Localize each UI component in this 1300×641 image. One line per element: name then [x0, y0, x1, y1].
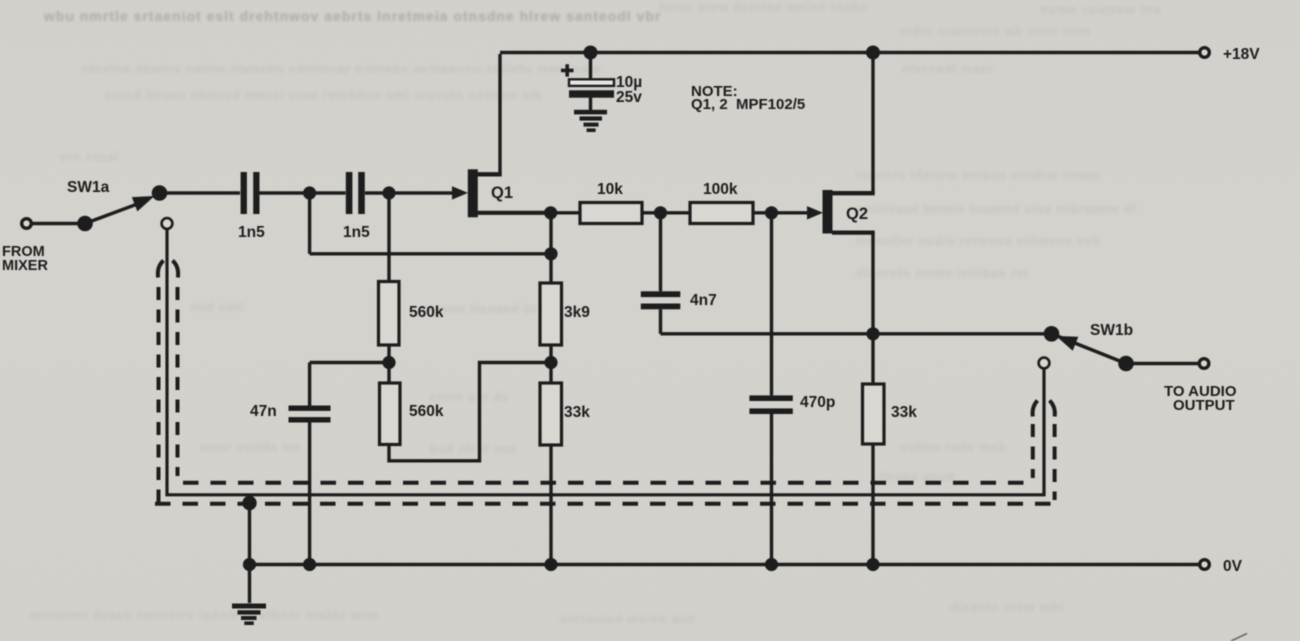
- wire SW1a lever: [85, 200, 148, 224]
- wire Q2 source to 33k: [871, 334, 874, 384]
- svg-text:470p: 470p: [800, 394, 835, 411]
- capacitor C1 1n5 plate right: [253, 172, 259, 214]
- junction dot Q1 source: [544, 206, 557, 219]
- wire SW1b lever: [1056, 336, 1126, 364]
- 10u plus sign: [561, 64, 574, 76]
- capacitor 47n plate top: [289, 406, 331, 411]
- junction dot Q2 source/output: [866, 327, 879, 340]
- terminal FROM MIXER: [22, 219, 32, 229]
- svg-text:47n: 47n: [250, 403, 277, 420]
- resistor 100k: [690, 203, 753, 224]
- arrowhead Q2 gate: [807, 206, 823, 219]
- junction dot 470p on rail: [765, 558, 778, 571]
- screen dashed shield left outer: [155, 261, 1058, 504]
- screen pickup circle right: [1039, 358, 1050, 369]
- wire right 33k to 0V rail: [871, 444, 874, 565]
- wire source node vertical: [549, 213, 552, 283]
- wire input terminal to switch pole: [31, 222, 85, 225]
- wire ground stub below screen: [248, 501, 251, 604]
- svg-text:10k: 10k: [597, 181, 623, 198]
- junction dot SW1a pole: [77, 216, 93, 232]
- arrowhead SW1a: [132, 196, 155, 211]
- junction dot 47n on rail: [303, 558, 316, 571]
- svg-text:33k: 33k: [564, 404, 590, 421]
- capacitor 4n7 plate bottom: [641, 304, 681, 310]
- capacitor 4n7 plate top: [641, 291, 681, 297]
- wire 470p upper lead: [770, 213, 773, 396]
- svg-text:Q2: Q2: [846, 205, 868, 223]
- svg-text:SW1a: SW1a: [67, 179, 110, 196]
- wire 47n lower lead to 0V: [308, 423, 311, 565]
- ground bars below 10u: [574, 110, 607, 115]
- capacitor 10u negative plate: [569, 90, 614, 97]
- arrowhead SW1b: [1056, 336, 1078, 351]
- wire between 1n5 caps: [260, 191, 346, 194]
- wire Q2 drain to rail: [871, 54, 874, 193]
- junction dot ground on rail: [243, 558, 256, 571]
- svg-text:3k9: 3k9: [564, 304, 590, 321]
- wire bootstrap horizontal to source node: [310, 252, 551, 255]
- screen solid earth line: [167, 229, 1044, 495]
- junction dot rail/Q2 drain: [866, 46, 880, 60]
- svg-text:SW1b: SW1b: [1090, 322, 1133, 339]
- junction dot 560k chain mid: [382, 356, 395, 369]
- wire +18V top rail: [500, 51, 1199, 54]
- capacitor 470p plate top: [749, 395, 792, 401]
- resistor 33k right: [863, 384, 885, 444]
- ground bars main earth: [232, 604, 266, 609]
- junction dot 3k9/33k bias: [544, 356, 557, 369]
- capacitor 47n plate bottom: [289, 417, 331, 422]
- wire Q2 source lead: [832, 231, 875, 235]
- transistor Q2 channel bar: [823, 190, 833, 234]
- screen dashed shield right inner: [1033, 401, 1038, 417]
- junction dot 33k on rail: [544, 558, 557, 571]
- svg-text:0V: 0V: [1223, 558, 1243, 575]
- junction dot SW1b pole: [1118, 356, 1134, 372]
- junction dot node A between caps: [303, 186, 316, 199]
- svg-text:1n5: 1n5: [238, 224, 265, 241]
- svg-text:560k: 560k: [409, 403, 444, 420]
- wire Q1 source to 10k: [551, 211, 580, 214]
- svg-text:Q1, 2 MPF102/5: Q1, 2 MPF102/5: [691, 96, 805, 113]
- wire SW1b throw to output terminal: [1126, 362, 1199, 365]
- junction dot SW1a contact: [152, 185, 168, 201]
- wire 10u cap to ground: [589, 97, 592, 111]
- terminal +18V: [1200, 48, 1210, 58]
- wire 100k to Q2 gate: [753, 211, 810, 214]
- capacitor 470p plate bottom: [749, 408, 792, 414]
- wire 10u cap to rail: [589, 53, 592, 81]
- wire node A bootstrap vertical: [308, 193, 311, 254]
- svg-text:100k: 100k: [703, 181, 738, 198]
- resistor 10k: [580, 203, 642, 224]
- wire 47n top connection: [310, 361, 389, 364]
- screen dashed shield left inner: [173, 261, 179, 278]
- wire 4n7 lower lead to output line: [659, 309, 662, 334]
- junction dot right 33k on rail: [866, 558, 879, 571]
- wire 33k to 0V rail: [549, 445, 552, 565]
- junction dot 10k/100k/4n7: [654, 206, 667, 219]
- capacitor C2 1n5 plate right: [358, 172, 365, 214]
- wire Q1 drain to rail: [498, 54, 501, 174]
- junction dot Q2 gate node: [765, 206, 778, 219]
- wire 3k9 to 33k: [549, 345, 552, 383]
- transistor Q1 channel bar: [468, 169, 478, 217]
- svg-text:560k: 560k: [409, 304, 444, 321]
- wire cap C2 to Q1 gate: [365, 191, 452, 194]
- capacitor 10u positive plate (hollow): [569, 79, 614, 86]
- svg-text:1n5: 1n5: [343, 224, 370, 241]
- screen pickup circle left: [162, 218, 173, 229]
- wire 0V bottom rail: [250, 563, 1200, 566]
- screen dashed shield bottom inner row: [183, 481, 1032, 485]
- resistor 33k left: [540, 383, 562, 445]
- svg-text:Q1: Q1: [491, 184, 513, 202]
- svg-text:33k: 33k: [891, 404, 917, 421]
- wire 560k bottom to bias node: [389, 363, 551, 461]
- arrowhead Q1 gate: [452, 186, 468, 199]
- svg-text:+18V: +18V: [1223, 46, 1260, 63]
- wire 47n upper lead: [308, 363, 311, 406]
- resistor 560k upper: [379, 282, 400, 346]
- screen dashed shield bottom outer row: [155, 502, 1058, 506]
- screen dashed shield right outer: [1050, 401, 1055, 417]
- capacitor C1 1n5 plate left: [241, 172, 247, 214]
- wire Q1 source lead: [476, 211, 551, 215]
- wire 470p lower lead to 0V: [770, 414, 773, 565]
- wire input line to cap C1: [160, 191, 241, 194]
- stray pen mark bottom right: [1231, 634, 1247, 641]
- terminal 0V: [1200, 560, 1210, 570]
- junction dot screen earth: [242, 496, 256, 510]
- capacitor C2 1n5 plate left: [346, 172, 353, 214]
- wire Q1 gate bias vertical: [387, 193, 390, 282]
- junction dot SW1b contact: [1044, 326, 1060, 342]
- svg-text:MIXER: MIXER: [2, 258, 48, 274]
- junction dot bootstrap node: [544, 247, 557, 260]
- junction dot rail/10u: [584, 46, 598, 60]
- svg-text:4n7: 4n7: [690, 292, 717, 309]
- wire 560k junction: [387, 345, 390, 383]
- wire output line to SW1b: [661, 332, 1052, 335]
- svg-text:OUTPUT: OUTPUT: [1173, 397, 1235, 414]
- wire 4n7 upper lead: [659, 213, 662, 291]
- terminal TO AUDIO OUTPUT: [1199, 359, 1209, 369]
- svg-text:25v: 25v: [616, 89, 642, 106]
- resistor 560k lower: [380, 383, 401, 445]
- wire 10k to 100k: [642, 211, 690, 214]
- resistor 3k9: [540, 283, 562, 345]
- junction dot gate bias node: [382, 186, 395, 199]
